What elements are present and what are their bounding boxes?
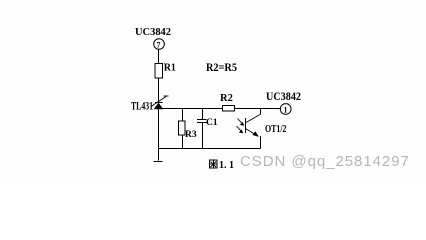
capacitor C1 top plate bbox=[197, 119, 207, 121]
svg-text:R3: R3 bbox=[185, 130, 197, 140]
resistor R3 bbox=[179, 121, 186, 135]
TL431 ref diagonal bbox=[151, 97, 166, 107]
svg-text:UC3842: UC3842 bbox=[266, 91, 301, 103]
ground bar bbox=[154, 161, 163, 163]
resistor R1 bbox=[155, 64, 163, 79]
pin 7 circle bbox=[154, 39, 165, 50]
wire C1 to bottom rail bbox=[202, 123, 204, 149]
svg-text:TL431: TL431 bbox=[131, 100, 153, 112]
transistor OT1/2 base bar bbox=[245, 118, 247, 133]
svg-text:R1: R1 bbox=[164, 62, 176, 73]
svg-text:OT1/2: OT1/2 bbox=[265, 124, 287, 135]
transistor OT1/2 emitter arrowhead bbox=[253, 132, 259, 137]
capacitor C1 bottom plate bbox=[197, 122, 207, 124]
svg-text:UC3842: UC3842 bbox=[135, 26, 171, 38]
svg-text:7: 7 bbox=[157, 41, 161, 50]
wire C1 drop bbox=[202, 109, 204, 120]
pin 1 circle bbox=[280, 104, 291, 115]
TL431 ref tick bbox=[164, 95, 169, 97]
watermark bbox=[240, 153, 410, 170]
wire bottom rail bbox=[159, 148, 261, 150]
svg-text:R2=R5: R2=R5 bbox=[206, 62, 237, 74]
svg-text:R2: R2 bbox=[220, 93, 233, 104]
light arrow 2 bbox=[237, 126, 243, 133]
TL431 cathode bar bbox=[155, 102, 163, 104]
wire top rail left segment bbox=[159, 108, 223, 110]
TL431 triangle bbox=[154, 103, 163, 109]
resistor R2 bbox=[223, 106, 235, 112]
svg-text:1: 1 bbox=[284, 106, 288, 115]
svg-text:C1: C1 bbox=[206, 118, 218, 128]
light arrow 2 head bbox=[239, 130, 243, 133]
wire R3 to bottom rail bbox=[182, 135, 184, 149]
light arrow 1 head bbox=[240, 122, 244, 125]
caption figure glyph 图 bbox=[210, 160, 218, 168]
transistor OT1/2 collector diagonal bbox=[246, 115, 260, 123]
wire OT1/2 emitter drop bbox=[260, 136, 262, 149]
wire TL431 to ground bbox=[158, 109, 160, 161]
wire pin7 to R1 bbox=[158, 50, 160, 64]
wire R1 to TL431 bbox=[158, 78, 160, 102]
wire top rail right segment bbox=[235, 108, 281, 110]
transistor OT1/2 emitter diagonal bbox=[246, 129, 259, 137]
wire OT1/2 collector drop bbox=[260, 109, 262, 115]
wire R3 drop bbox=[182, 109, 184, 122]
svg-text:1. 1: 1. 1 bbox=[219, 160, 234, 171]
light arrow 1 bbox=[238, 119, 244, 126]
